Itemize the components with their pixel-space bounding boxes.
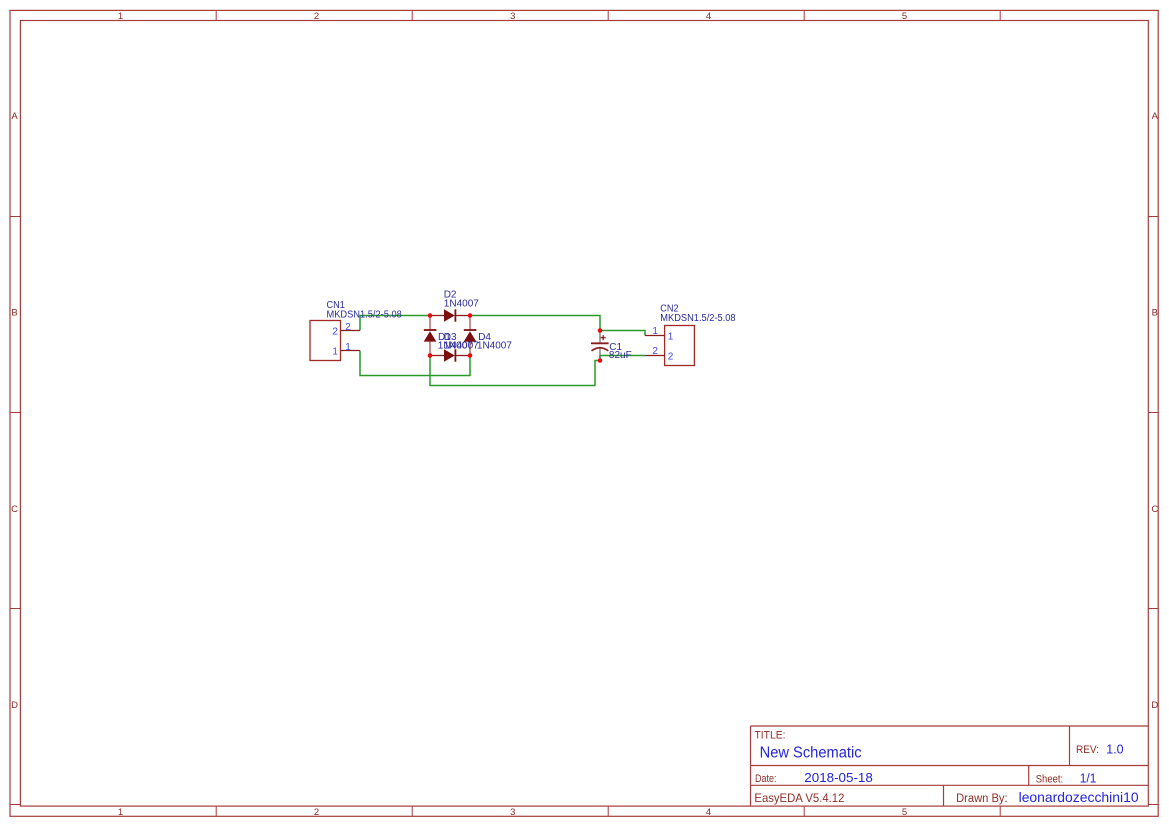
svg-text:C: C (1151, 504, 1158, 515)
svg-text:2: 2 (332, 327, 338, 338)
diode D3 body (430, 349, 470, 362)
svg-text:New Schematic: New Schematic (760, 744, 862, 761)
diode D1 body (424, 316, 437, 356)
svg-text:B: B (11, 307, 17, 318)
junction node bridge top left (428, 313, 433, 318)
svg-text:MKDSN1.5/2-5.08: MKDSN1.5/2-5.08 (660, 313, 736, 324)
CN1 pin 2 (341, 330, 361, 332)
svg-text:82uF: 82uF (609, 350, 632, 361)
C1 polarity plus sign (601, 335, 606, 340)
svg-text:B: B (1152, 307, 1158, 318)
svg-text:2: 2 (652, 346, 658, 357)
wire net AC2 from CN1 pin1 to bridge right column (360, 351, 470, 376)
CN2 pin 2 (645, 355, 665, 357)
svg-text:REV:: REV: (1076, 744, 1099, 756)
capacitor C1 body polarized (591, 331, 609, 361)
svg-text:1N4007: 1N4007 (477, 340, 512, 351)
svg-text:A: A (1152, 111, 1159, 122)
svg-text:1: 1 (652, 326, 658, 337)
svg-text:Date:: Date: (755, 773, 777, 785)
svg-text:C: C (11, 504, 18, 515)
diode D4 body (464, 316, 477, 356)
svg-text:1: 1 (332, 347, 338, 358)
svg-text:D: D (1151, 700, 1158, 711)
svg-text:1N4007: 1N4007 (444, 299, 479, 310)
svg-text:4: 4 (706, 807, 711, 818)
svg-text:MKDSN1.5/2-5.08: MKDSN1.5/2-5.08 (327, 310, 403, 321)
svg-text:1/1: 1/1 (1080, 771, 1097, 785)
wire net minus from bridge bottom to C1 bottom (430, 356, 600, 386)
svg-text:TITLE:: TITLE: (755, 729, 786, 741)
junction node bridge bottom left (428, 353, 433, 358)
wire net plus from bridge to C1 top (470, 316, 600, 331)
svg-text:4: 4 (706, 11, 711, 22)
connector CN2 body (665, 326, 695, 366)
svg-text:1: 1 (118, 807, 123, 818)
junction node C1 top (598, 328, 603, 333)
svg-text:A: A (11, 111, 18, 122)
svg-text:2018-05-18: 2018-05-18 (804, 771, 873, 785)
CN1 pin 1 (341, 350, 361, 352)
svg-text:Drawn By:: Drawn By: (956, 793, 1008, 805)
CN2 pin 1 (645, 335, 665, 337)
junction node bridge bottom right (468, 353, 473, 358)
svg-text:2: 2 (314, 11, 319, 22)
svg-text:1N4007: 1N4007 (444, 340, 479, 351)
title block (751, 726, 1149, 806)
wire net plus from C1 top to CN2 pin1 (600, 331, 645, 336)
svg-text:2: 2 (345, 322, 351, 333)
wire net AC1 top from CN1 pin2 to bridge (360, 316, 430, 331)
svg-text:3: 3 (510, 807, 515, 818)
svg-text:2: 2 (314, 807, 319, 818)
svg-text:5: 5 (902, 11, 907, 22)
junction node C1 bottom (598, 358, 603, 363)
svg-text:2: 2 (668, 352, 674, 363)
svg-text:Sheet:: Sheet: (1036, 773, 1064, 785)
connector CN1 body (310, 321, 341, 361)
svg-text:D: D (11, 700, 18, 711)
svg-text:leonardozecchini10: leonardozecchini10 (1019, 789, 1139, 805)
svg-text:3: 3 (510, 11, 515, 22)
wire net minus from C1 bottom to CN2 pin2 (600, 356, 645, 361)
svg-text:1.0: 1.0 (1106, 741, 1123, 756)
diode D2 body (430, 309, 470, 322)
svg-text:1: 1 (118, 11, 123, 22)
svg-text:5: 5 (902, 807, 907, 818)
svg-text:1: 1 (668, 332, 674, 343)
svg-text:EasyEDA V5.4.12: EasyEDA V5.4.12 (754, 791, 844, 805)
junction node bridge top right (468, 313, 473, 318)
svg-text:1: 1 (345, 342, 351, 353)
